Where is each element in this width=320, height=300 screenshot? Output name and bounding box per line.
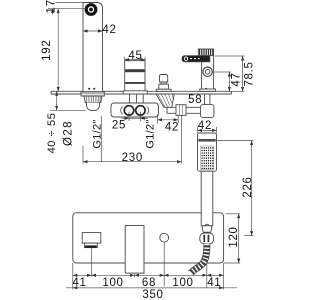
svg-text:47: 47 [230, 72, 242, 86]
svg-text:41: 41 [207, 277, 221, 289]
svg-text:42: 42 [102, 24, 116, 36]
svg-text:120: 120 [228, 226, 240, 247]
svg-text:42: 42 [198, 120, 212, 132]
svg-text:68: 68 [142, 277, 156, 289]
svg-text:41: 41 [72, 277, 86, 289]
svg-text:78.5: 78.5 [244, 61, 256, 86]
svg-text:100: 100 [172, 277, 193, 289]
svg-text:350: 350 [142, 289, 163, 300]
svg-text:45: 45 [128, 50, 142, 62]
svg-text:17: 17 [45, 0, 57, 14]
svg-text:230: 230 [122, 152, 143, 164]
svg-text:100: 100 [102, 277, 123, 289]
svg-text:G1/2": G1/2" [92, 119, 104, 148]
svg-text:58: 58 [188, 94, 202, 106]
svg-text:192: 192 [41, 40, 53, 61]
svg-text:40 ÷ 55: 40 ÷ 55 [46, 113, 58, 154]
svg-text:42: 42 [165, 122, 179, 134]
svg-text:25: 25 [112, 120, 126, 132]
svg-text:226: 226 [242, 176, 254, 197]
svg-text:G1/2": G1/2" [144, 119, 156, 148]
svg-text:Ø28: Ø28 [62, 120, 74, 146]
